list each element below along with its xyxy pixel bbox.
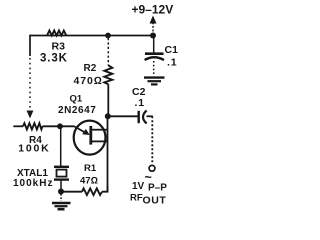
node junction dot rail/R2	[105, 33, 111, 39]
wire ground lead	[60, 194, 62, 201]
resistor R2	[104, 65, 112, 84]
node junction dot XTAL tap	[57, 123, 63, 129]
crystal XTAL1	[54, 167, 69, 180]
svg-text:P–P: P–P	[148, 183, 167, 194]
svg-text:470Ω: 470Ω	[74, 75, 103, 87]
svg-text:R1: R1	[84, 163, 97, 174]
svg-text:.1: .1	[135, 97, 145, 109]
wire supply arrow shaft	[152, 23, 154, 35]
transistor Q1	[74, 121, 108, 155]
output terminal circle	[149, 165, 155, 171]
svg-text:2N2647: 2N2647	[58, 105, 96, 116]
wire C2 to output corner	[147, 115, 153, 117]
wire XTAL bottom lead	[60, 181, 62, 190]
svg-text:100K: 100K	[18, 142, 50, 154]
svg-text:C1: C1	[165, 44, 179, 56]
wire R2 bottom lead	[107, 84, 109, 116]
svg-text:100kHz: 100kHz	[13, 178, 53, 189]
svg-text:RF: RF	[130, 193, 143, 204]
svg-text:R3: R3	[52, 40, 66, 52]
node junction dot XTAL/R1/ground	[58, 189, 64, 195]
node junction dot R2/C2/B2	[105, 113, 111, 119]
wire R1 to base column	[102, 186, 108, 192]
wire B2 node to C2	[110, 115, 138, 117]
svg-text:.1: .1	[167, 56, 177, 68]
svg-text:Q1: Q1	[70, 94, 83, 105]
wire R2 top lead	[107, 38, 109, 66]
wire C1 bottom lead	[153, 61, 155, 76]
wire XTAL top lead	[60, 126, 62, 166]
wire top supply rail	[30, 35, 153, 37]
wire left wiper lead (dotted part)	[29, 58, 31, 108]
wire left wiper lead (solid part)	[29, 35, 31, 56]
wire output drop (dotted)	[151, 116, 153, 164]
ground under C1	[144, 78, 165, 85]
wire R4 left stub	[13, 125, 23, 127]
wire base column B2/B1 vertical	[107, 116, 109, 191]
svg-text:47Ω: 47Ω	[80, 175, 98, 186]
svg-text:OUT: OUT	[143, 195, 167, 207]
svg-text:3.3K: 3.3K	[40, 53, 68, 65]
potentiometer wiper arrow on R4	[27, 111, 34, 119]
capacitor C1	[145, 54, 164, 60]
wire R4 to emitter	[43, 125, 75, 127]
wire XTAL node to R1	[63, 191, 82, 193]
ground under XTAL	[52, 203, 71, 209]
svg-text:R2: R2	[84, 63, 97, 74]
supply arrow head +9-12V	[150, 16, 157, 24]
svg-text:1V: 1V	[132, 181, 145, 192]
resistor R4	[23, 123, 43, 129]
resistor R3	[47, 31, 66, 36]
resistor R1	[82, 188, 102, 195]
node junction dot supply tap	[150, 33, 156, 39]
capacitor C2	[139, 111, 147, 124]
wire C1 top lead	[153, 36, 155, 53]
svg-text:+9–12V: +9–12V	[132, 3, 174, 17]
